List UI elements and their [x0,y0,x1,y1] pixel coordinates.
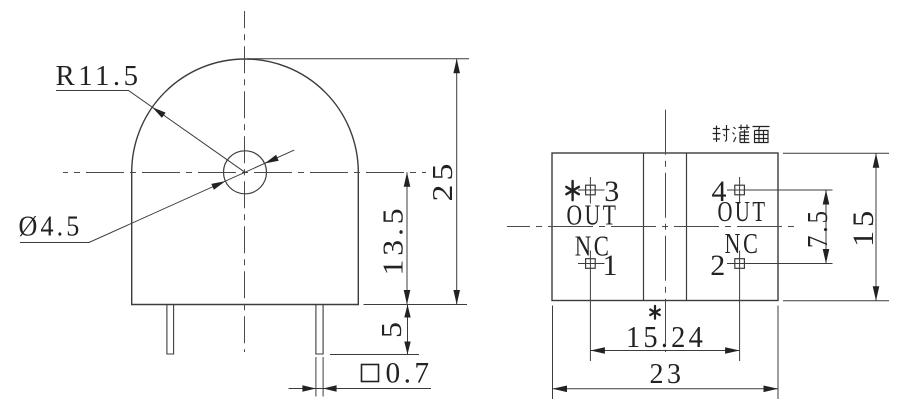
svg-text:15.24: 15.24 [626,319,706,354]
dim 25 arrow top [453,59,460,74]
dim 0.7 right extension line [322,357,324,397]
horizontal centerline (front view) [63,172,426,174]
dim 5 dimension line [407,305,409,355]
dim 13.5 dimension line [406,172,408,304]
core window line left [643,153,645,301]
dim 13.5 arrow top [404,172,411,187]
svg-text:Ø4.5: Ø4.5 [19,211,83,243]
dim 25 dimension line [456,59,458,305]
label R11.5 leader line [56,91,245,173]
dim 23 dimension line [553,388,779,390]
body outline (dome-shaped case) [132,59,359,305]
dim 5 arrow bottom [404,342,410,355]
svg-text:13.5: 13.5 [378,205,410,276]
svg-text:25: 25 [427,160,459,202]
svg-text:0.7: 0.7 [386,357,433,390]
封灌面 (potting surface) label [713,125,770,143]
pin 4 square pad [735,185,745,195]
dim 7.5 text [802,208,834,248]
center hole Ø4.5 [224,151,267,194]
dim 15.24 dimension line [590,350,739,352]
dim 15 bottom extension line [783,300,889,302]
left pin (front view) [167,305,174,355]
dim 15.24 arrow right [725,347,740,354]
pin 3 crosshair [578,177,605,204]
dim 15 text [847,207,880,247]
svg-text:OUT: OUT [718,196,768,228]
vertical centerline (front view) [244,11,246,352]
svg-text:23: 23 [650,359,685,390]
dim 23 arrow right [764,386,779,393]
dim 15 arrow bottom [873,286,880,301]
dim 0.7 dimension/leader line [289,388,432,390]
dim 15 dimension line [875,153,877,300]
svg-text:NC: NC [725,228,761,260]
dim 25 text [427,160,459,202]
core window line right [686,153,688,301]
dim 13.5 text [378,205,410,276]
bottom view rectangle [552,153,778,301]
asterisk marker below rectangle [650,306,660,319]
pin 1 square pad [586,259,596,269]
dim 15.24 arrow left [590,347,605,354]
dim 0.7 arrow left [302,385,316,391]
dim 23 left extension line [552,306,554,400]
dim 7.5 arrow bottom [823,249,830,264]
horizontal centerline (bottom view) [507,226,794,228]
vertical centerline (bottom view) [665,110,667,352]
dim 23 right extension line [777,306,779,400]
svg-text:15: 15 [847,207,880,247]
svg-text:7.5: 7.5 [802,208,834,248]
dim 15 arrow top [873,153,880,168]
svg-text:OUT: OUT [567,200,619,232]
asterisk marker at pin 3 [566,181,579,200]
pin 3 square pad [586,185,596,195]
dim 25 bottom extension line [364,304,468,306]
pin 2 square pad [735,259,745,269]
square symbol for 0.7 [362,365,379,382]
dim 5 text [376,322,408,338]
dim 7.5 dimension line [825,190,827,264]
dim 0.7 arrow right [323,385,337,391]
svg-text:R11.5: R11.5 [56,60,142,92]
right pin (front view) [316,305,323,355]
label Ø4.5 arrowhead upper-right [265,155,279,164]
pin 2 crosshair [727,251,833,362]
dim 0.7 left extension line [315,357,317,397]
dim 5 pin-bottom extension line [330,354,419,356]
label R11.5 arrowhead on arc [152,107,165,118]
pin 1 crosshair [578,251,605,362]
dim 5 arrow top [404,305,410,318]
dim 15 top extension line [783,152,889,154]
dim 25 top extension line [247,58,469,60]
dim 13.5 arrow bottom [404,290,411,305]
pin 4 crosshair [727,177,833,204]
dim 25 arrow bottom [453,290,460,305]
svg-text:2: 2 [710,249,725,282]
label Ø4.5 arrowhead lower-left [211,181,225,190]
label Ø4.5 leader line [20,150,294,242]
dim 7.5 arrow top [823,190,830,205]
svg-text:NC: NC [575,231,612,263]
dim 23 arrow left [553,386,568,393]
svg-text:5: 5 [376,322,408,338]
